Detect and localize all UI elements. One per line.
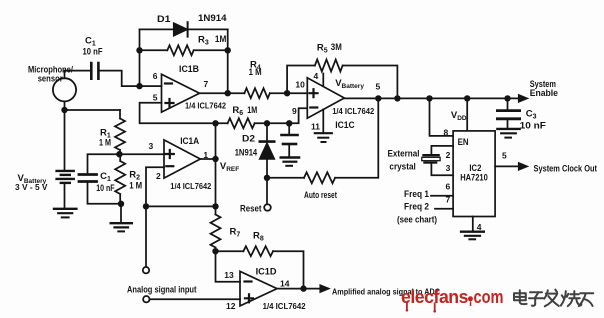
resistor auto-reset <box>304 172 335 183</box>
wire auto reset feedback <box>267 98 378 177</box>
svg-text:4: 4 <box>477 222 482 232</box>
svg-text:5: 5 <box>502 150 507 160</box>
svg-text:3: 3 <box>149 141 154 151</box>
ground IC1C pin11 <box>315 132 332 134</box>
IC1C pin11 stub <box>322 109 324 132</box>
svg-text:5: 5 <box>153 93 158 103</box>
svg-text:1M: 1M <box>247 105 257 115</box>
svg-text:6: 6 <box>153 71 158 81</box>
svg-text:EN: EN <box>458 137 469 147</box>
svg-text:R7: R7 <box>230 226 241 238</box>
IC1D minus input mark <box>245 280 252 282</box>
svg-text:1 M: 1 M <box>99 138 111 148</box>
op-amp IC1C <box>307 78 344 118</box>
wire system enable line <box>344 97 519 99</box>
node open terminal <box>143 267 149 273</box>
svg-text:R3: R3 <box>198 34 209 46</box>
svg-text:8: 8 <box>444 127 449 137</box>
wire R3 feedback <box>140 49 228 51</box>
wire C1 to IC1B pin6 <box>100 71 162 87</box>
op-amp IC1B <box>162 74 200 112</box>
svg-text:10 nF: 10 nF <box>520 120 547 130</box>
resistor R3 <box>167 45 193 55</box>
svg-text:Analog signal input: Analog signal input <box>127 284 197 294</box>
svg-text:External: External <box>388 149 420 159</box>
svg-text:3M: 3M <box>331 42 342 52</box>
svg-text:com: com <box>474 286 504 307</box>
wire divider mid node to IC1A pin3 <box>88 154 165 174</box>
resistor R5 <box>315 60 343 72</box>
crystal X1 <box>422 154 440 164</box>
svg-text:Auto reset: Auto reset <box>304 190 337 200</box>
svg-text:1M: 1M <box>215 34 227 44</box>
svg-text:IC1C: IC1C <box>335 120 355 130</box>
svg-text:7: 7 <box>204 79 209 89</box>
svg-text:VREF: VREF <box>220 161 239 173</box>
ground R2 <box>120 204 122 223</box>
svg-text:5: 5 <box>376 82 381 92</box>
svg-text:2: 2 <box>446 150 451 160</box>
wire clock out pin5 <box>495 165 519 167</box>
capacitor C3 <box>497 109 519 112</box>
svg-text:1N914: 1N914 <box>198 13 227 23</box>
wire mic top to C1 <box>65 71 91 79</box>
wire EN branch <box>430 98 454 135</box>
svg-text:7: 7 <box>446 194 451 204</box>
wire IC1D pin13 <box>216 251 241 282</box>
resistor R1 <box>115 110 125 154</box>
svg-text:D2: D2 <box>242 134 255 144</box>
arrow system enable <box>519 95 527 102</box>
svg-text:14: 14 <box>280 278 290 288</box>
IC1B minus input mark <box>165 82 172 84</box>
wire terminal below <box>145 206 147 267</box>
svg-text:10 nF: 10 nF <box>96 183 115 193</box>
svg-text:3: 3 <box>446 163 451 173</box>
node analog input terminal <box>143 296 149 302</box>
IC1C plus input mark <box>310 89 318 97</box>
svg-text:crystal: crystal <box>389 162 415 172</box>
ground battery <box>54 208 76 210</box>
IC1A plus input mark <box>166 150 174 158</box>
IC1D plus input mark <box>245 294 253 302</box>
svg-text:IC1A: IC1A <box>180 136 199 146</box>
svg-text:Enable: Enable <box>530 88 558 98</box>
wire IC1D pin12 <box>150 298 240 300</box>
svg-text:Freq 2: Freq 2 <box>404 202 429 212</box>
wire IC1A pin2 route <box>146 167 216 206</box>
svg-text:IC1D: IC1D <box>256 266 278 276</box>
ground C3 <box>497 128 519 130</box>
svg-text:11: 11 <box>311 122 320 132</box>
capacitor C1 (filter, lower) <box>79 173 97 176</box>
wire R4 to IC1C pin10 <box>270 92 307 94</box>
svg-text:(see chart): (see chart) <box>397 215 437 225</box>
arrow system clock out <box>519 163 527 170</box>
diode D2 <box>260 123 274 204</box>
svg-text:System Clock Out: System Clock Out <box>534 163 598 173</box>
svg-text:1 M: 1 M <box>249 67 262 77</box>
svg-text:C1: C1 <box>85 35 96 47</box>
svg-text:R6: R6 <box>232 105 243 117</box>
svg-text:4: 4 <box>314 71 319 81</box>
svg-text:1/4 ICL7642: 1/4 ICL7642 <box>263 302 307 311</box>
wire freq1 pin6 <box>431 195 453 197</box>
svg-text:R8: R8 <box>253 230 264 242</box>
resistor R8 <box>243 246 273 256</box>
svg-text:9: 9 <box>292 106 297 116</box>
IC1B plus input mark <box>166 99 174 107</box>
wire feedback vertical right <box>227 29 229 93</box>
svg-text:1: 1 <box>203 150 208 160</box>
wire C3 branch <box>507 98 509 109</box>
svg-text:D1: D1 <box>157 14 171 24</box>
svg-text:2: 2 <box>156 171 161 181</box>
auto-reset capacitor <box>282 123 298 156</box>
ground IC2 pin4 <box>461 230 484 232</box>
wire IC2 pin4 ground stub <box>472 217 474 232</box>
resistor R6 <box>228 118 255 128</box>
svg-text:13: 13 <box>224 270 234 280</box>
IC1C pin4 supply stub <box>322 74 324 87</box>
resistor R4 <box>244 88 269 98</box>
svg-text:12: 12 <box>226 301 236 311</box>
svg-text:Reset: Reset <box>240 203 262 213</box>
svg-text:VBattery: VBattery <box>335 78 364 90</box>
wire freq2 pin7 <box>435 208 453 210</box>
wire R5 feedback branch <box>287 66 397 99</box>
op-amp IC1D <box>240 271 277 306</box>
microphone M1 circle <box>53 78 76 101</box>
wire IC1D output <box>277 288 321 290</box>
wire crystal pin2 pin3 loop <box>431 146 453 175</box>
svg-text:10 nF: 10 nF <box>83 47 103 57</box>
watermark chinese text 电子发烧友 <box>514 290 593 307</box>
svg-text:C3: C3 <box>526 108 537 120</box>
wire IC1B pin5 to VREF line <box>140 103 216 124</box>
IC1A minus input mark <box>166 165 173 167</box>
wire VDD branch <box>466 98 468 130</box>
watermark elecfans.com logo <box>401 286 504 313</box>
junction dots <box>61 107 67 113</box>
svg-text:10: 10 <box>295 80 305 90</box>
svg-text:HA7210: HA7210 <box>460 172 488 182</box>
svg-text:C1: C1 <box>100 171 111 183</box>
resistor R2 <box>115 154 125 204</box>
wire IC1B output to R4 <box>200 92 245 94</box>
resistor R7 <box>211 215 221 252</box>
battery VBattery <box>57 110 74 208</box>
wire R6 line <box>216 108 308 123</box>
ground auto-reset cap <box>281 156 299 158</box>
wire feedback vertical left <box>139 29 141 86</box>
svg-text:Freq 1: Freq 1 <box>404 189 429 199</box>
svg-text:1N914: 1N914 <box>235 148 258 158</box>
svg-text:1/4 ICL7642: 1/4 ICL7642 <box>170 182 212 191</box>
wire R8 line <box>216 251 304 288</box>
wire mic bottom node <box>65 101 121 110</box>
capacitor C1 (series, top) <box>91 63 98 79</box>
IC1C minus input mark <box>310 106 317 108</box>
svg-text:1/4 ICL7642: 1/4 ICL7642 <box>185 101 227 110</box>
IC2 HA7210 box <box>453 131 495 217</box>
wire IC1A output <box>200 158 215 160</box>
diode D1 <box>174 22 188 36</box>
svg-text:sensor: sensor <box>38 74 63 84</box>
wire VREF column <box>215 123 217 214</box>
node reset terminal <box>264 204 271 211</box>
op-amp IC1A <box>164 140 200 178</box>
svg-text:1 M: 1 M <box>129 180 142 190</box>
wire D1 top <box>140 28 228 30</box>
svg-text:IC1B: IC1B <box>179 64 199 74</box>
svg-text:R5: R5 <box>317 42 328 54</box>
svg-text:VDD: VDD <box>451 110 467 122</box>
arrow amplified output <box>320 285 328 292</box>
svg-text:3 V - 5 V: 3 V - 5 V <box>15 182 48 192</box>
svg-text:1/4 ICL7642: 1/4 ICL7642 <box>332 107 375 116</box>
svg-text:6: 6 <box>446 182 451 192</box>
